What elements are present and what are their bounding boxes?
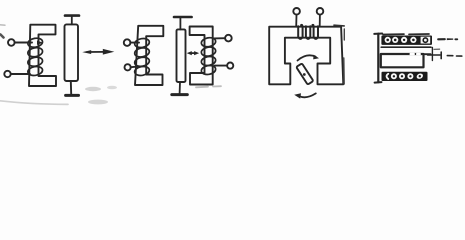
fig1 wire T1 to coil — [15, 42, 32, 44]
fig4 top coil dot 1 — [386, 39, 389, 42]
fig4 top band rough upper edge — [383, 33, 429, 36]
fig4 bottom coil wire circle 2 — [399, 73, 405, 79]
fig4 bottom coil wire circle 1 — [391, 73, 397, 79]
fig2 left C-core — [135, 26, 163, 85]
fig2 right coil winding — [201, 37, 217, 76]
smudge bottom gray blob — [88, 100, 108, 105]
fig4 top coil section band — [381, 36, 432, 45]
fig4 force arrow 2 — [447, 38, 453, 40]
fig4 bottom coil dot 2 — [401, 75, 403, 77]
fig3 wire junction dot B — [311, 24, 314, 27]
fig2 plunger bottom stem — [179, 82, 181, 94]
smudge left edge top — [0, 24, 5, 26]
fig3 wire junction dot A — [300, 24, 303, 27]
fig4 bottom coil section band — [382, 72, 428, 81]
fig2 wire T3 to coil — [214, 37, 226, 39]
fig4 plunger top-edge dash gaps — [411, 53, 420, 56]
fig2 plunger top stem — [179, 17, 181, 29]
smudge fig2 bottom right dashes — [196, 86, 221, 87]
fig4 bottom coil wire circle 3 — [407, 73, 413, 79]
fig4 top coil wire circle 3 — [401, 37, 407, 43]
fig3 rotation arrow bottom — [294, 93, 316, 98]
fig1 motion arrow double-headed — [82, 49, 114, 55]
fig4 force dash 1 — [438, 38, 445, 40]
fig2 motion arrow double-headed — [187, 51, 200, 55]
fig4 top coil dot 2 — [394, 39, 397, 42]
fig4 dash b — [457, 55, 462, 57]
fig1 plunger bottom T-bar — [66, 94, 79, 97]
fig3 terminal T2 — [317, 8, 324, 15]
fig4 frame bracket — [377, 34, 379, 82]
fig1 C-core (electromagnet yoke) — [29, 25, 56, 86]
smudge left edge blob — [1, 35, 4, 38]
fig1 terminal T1 — [8, 39, 15, 46]
fig3 vane pivot — [303, 73, 306, 76]
fig2 right C-core — [190, 27, 213, 85]
fig4 line under top band — [381, 46, 431, 48]
fig1 coil winding — [27, 37, 43, 77]
fig3 sketchy corner dash — [334, 24, 344, 27]
fig3 coil turn 3 — [314, 26, 318, 39]
fig2 wire left T1 to coil — [130, 42, 139, 44]
smudge bottom-left arc — [0, 101, 68, 105]
fig3 wire T2 lead — [319, 15, 321, 27]
fig2 plunger top T-bar — [174, 16, 192, 19]
fig4 top coil wire circle 2 — [392, 37, 398, 43]
fig2 wire T4 to coil — [215, 65, 228, 67]
fig4 dashed end tick 1 — [431, 48, 433, 61]
fig4 force dash 3 — [455, 38, 457, 40]
fig4 bracket bottom cap — [375, 81, 382, 84]
fig2 left coil winding — [134, 37, 150, 76]
fig3 wire T1 lead — [295, 15, 297, 27]
fig4 top coil wire circle 1 — [385, 37, 391, 43]
fig3 moving iron vane — [296, 63, 313, 84]
fig4 top coil end box — [421, 37, 431, 44]
fig4 top coil dot 3 — [403, 39, 405, 41]
fig3 terminal T1 — [293, 8, 300, 15]
fig1 wire T2 to coil — [11, 73, 30, 75]
fig3 rotation arrow top — [298, 55, 320, 61]
fig4 bottom coil end oval — [416, 73, 424, 80]
fig2 plunger armature — [177, 29, 186, 82]
fig3 magnet core with pole slot — [269, 27, 343, 85]
fig4 top coil dot 4 — [412, 39, 415, 42]
fig1 plunger bottom stem — [70, 81, 72, 94]
fig1 terminal T2 — [4, 71, 10, 77]
fig4 dashed end tick 2 — [440, 52, 442, 59]
fig2 right terminal T4 — [227, 63, 233, 69]
fig2 left terminal T1 — [124, 39, 131, 46]
fig1 plunger armature — [65, 24, 79, 81]
fig2 left terminal T2 — [125, 64, 131, 70]
fig2 right terminal T3 — [225, 35, 232, 42]
smudge right of fig1 bottom — [85, 87, 101, 91]
fig4 bottom coil end dot — [419, 75, 421, 77]
fig2 plunger bottom T-bar — [172, 93, 188, 96]
fig4 plunger core — [381, 54, 424, 67]
fig4 top coil wire circle 4 — [410, 37, 416, 43]
fig2 wire left T2 to coil — [131, 66, 138, 69]
fig1 plunger top T-bar — [65, 14, 79, 17]
fig3 coil turn 1 — [298, 26, 302, 39]
fig4 bottom coil C — [387, 74, 389, 79]
fig1 plunger top stem — [71, 16, 73, 25]
fig4 plunger dashed top extension — [425, 53, 431, 55]
fig4 bottom coil dot 3 — [409, 75, 411, 77]
fig4 dash a — [447, 55, 453, 57]
fig3 sketchy right edge — [343, 29, 346, 84]
fig4 bottom coil dot 1 — [393, 75, 395, 77]
fig3 coil turn 2 — [306, 26, 310, 39]
fig4 dashed pull line — [428, 54, 441, 56]
fig4 top coil end box circle — [423, 38, 427, 42]
fig4 upper dash c — [434, 48, 440, 50]
fig1 coil wire arrowhead — [37, 41, 43, 45]
fig4 bracket top cap — [374, 33, 382, 35]
